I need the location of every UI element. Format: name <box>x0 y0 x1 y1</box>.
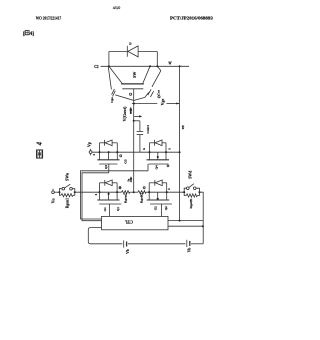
SW gate bar <box>122 88 143 90</box>
SW outer slant left lower <box>115 95 134 101</box>
resistor Rgoff2 <box>138 191 146 194</box>
svg-text:4]: 4] <box>30 31 35 37</box>
svg-text:4/10: 4/10 <box>113 6 120 10</box>
svg-text:Q2: Q2 <box>164 206 168 210</box>
svg-text:Rgon2: Rgon2 <box>123 193 127 203</box>
wire rail2 between resistors <box>130 191 138 193</box>
node dot c-inner-right <box>149 65 151 67</box>
transistor Q3 cell <box>97 140 119 169</box>
wire bottom right <box>191 243 203 245</box>
wire loop right vertical <box>156 52 158 67</box>
svg-text:9E: 9E <box>181 125 185 130</box>
Gout arrow horizontal <box>134 115 140 117</box>
wire loop top left <box>109 51 127 53</box>
SW outer slant right lower <box>145 92 149 97</box>
transistor Q1 mosfet <box>99 192 101 200</box>
transistor Q1 cell <box>97 180 122 217</box>
wire emitter vertical <box>179 66 181 220</box>
wire Q2 loop <box>148 183 150 192</box>
svg-text:Q4: Q4 <box>155 165 159 169</box>
wire box right upper <box>168 220 203 222</box>
node dots rail1 Q4 <box>148 151 150 153</box>
svg-text:G: G <box>143 148 146 150</box>
wire Q3 loop <box>99 143 101 152</box>
svg-text:Rgon1: Rgon1 <box>65 198 69 208</box>
node dot loop-right <box>156 65 158 67</box>
V(Gout) arrow vertical <box>130 110 132 114</box>
node dots rail1 Q3 <box>98 151 100 153</box>
svg-text:D: D <box>129 42 132 46</box>
node circle q4 <box>167 165 169 167</box>
svg-text:Vb: Vb <box>126 249 130 254</box>
transistor Q4 cell <box>143 140 181 169</box>
wire bottom loop left <box>88 228 122 244</box>
resistor Rgoff1 <box>184 192 199 197</box>
capacitor Cge bars <box>112 89 115 95</box>
wire loop left vertical <box>108 52 110 67</box>
node dot gate-rail2 <box>133 191 135 193</box>
diode Q2 <box>154 180 156 186</box>
svg-text:S: S <box>169 148 172 150</box>
diode Q3 <box>104 140 106 146</box>
wire Q3 gate drop <box>108 164 110 173</box>
svg-text:[: [ <box>23 31 25 37</box>
wire Q1 gate drop <box>108 204 110 216</box>
node G3 circle <box>120 155 122 157</box>
svg-text:CGD1: CGD1 <box>146 125 150 134</box>
svg-text:CTL: CTL <box>124 219 133 224</box>
svg-text:G1: G1 <box>103 207 107 211</box>
diode Q4 <box>154 140 156 146</box>
resistor Rgon1 <box>59 192 74 197</box>
wire box right lower <box>168 225 203 227</box>
svg-text:Vge: Vge <box>160 99 165 106</box>
svg-text:G2: G2 <box>154 206 158 210</box>
switch SWd <box>183 184 200 194</box>
terminal Vn <box>52 189 55 194</box>
node dot emitter-branch <box>179 65 181 67</box>
transistor Q3 mosfet <box>99 152 101 159</box>
battery Vb2 <box>187 240 190 247</box>
svg-text:SWd: SWd <box>189 170 193 179</box>
svg-text:V(Gout): V(Gout) <box>122 106 127 121</box>
svg-text:Cce: Cce <box>157 90 161 96</box>
wire rail2 segs <box>54 191 59 193</box>
FIG 4 rotated label <box>37 141 44 158</box>
wire Q4 gate drop <box>147 164 149 171</box>
node dots rail2 Q1 <box>98 191 100 193</box>
box CTL <box>102 216 169 229</box>
capacitor Cce bars <box>148 89 151 95</box>
wire main collector <box>101 65 190 67</box>
svg-text:Vn: Vn <box>51 198 55 204</box>
svg-text:S: S <box>95 193 98 195</box>
wire bus A <box>81 171 149 219</box>
svg-text:Rgoff2: Rgoff2 <box>140 193 144 203</box>
SW outer slant left upper <box>108 67 111 89</box>
capacitor CGD1 branch <box>134 120 140 122</box>
wire rail2 right corner <box>200 192 204 244</box>
svg-text:G3: G3 <box>123 159 127 164</box>
svg-text:SW: SW <box>132 72 137 78</box>
node dot gate branch <box>133 120 135 122</box>
switch SWu <box>58 184 75 193</box>
node dot emitter-box <box>179 220 181 222</box>
node G circle <box>130 93 132 95</box>
svg-text:Vp: Vp <box>86 141 91 147</box>
transistor Q4 mosfet <box>149 152 151 159</box>
[figure 4] bracket label <box>23 31 34 37</box>
wire rail1 <box>92 151 180 153</box>
wire Q4 loop <box>149 143 151 152</box>
gate lead wire down <box>133 89 135 192</box>
wire loop top right <box>138 51 157 53</box>
svg-text:4: 4 <box>37 141 44 146</box>
node dots rail2 Q2 <box>148 191 150 193</box>
wire bus B <box>82 173 109 221</box>
resistor Rgon2 <box>122 191 130 194</box>
diode D <box>127 46 138 57</box>
svg-text:Cge: Cge <box>110 97 114 103</box>
wire Q2 gate drop <box>160 204 162 216</box>
svg-text:WO 2017/221417: WO 2017/221417 <box>36 15 61 20</box>
SW inner slant right <box>143 66 150 83</box>
wire bottom mid <box>128 243 185 245</box>
wire rail2 to Q2 <box>146 191 184 193</box>
Ie current arrow <box>130 176 133 182</box>
transistor Q2 mosfet <box>148 192 150 200</box>
svg-text:PCT/JP2016/068893: PCT/JP2016/068893 <box>170 15 214 20</box>
node circle rgon2-left <box>119 187 121 189</box>
svg-text:SWu: SWu <box>66 172 70 181</box>
terminal Vp <box>89 149 92 155</box>
Vge measure arrow <box>132 96 180 105</box>
wire rail2 mid <box>75 191 122 193</box>
svg-text:W: W <box>168 61 172 65</box>
SW outer slant right upper <box>158 67 161 71</box>
node dot box lower <box>202 225 204 227</box>
svg-text:Vb: Vb <box>187 248 191 253</box>
svg-text:Rgoff1: Rgoff1 <box>189 198 193 208</box>
node dot c-left <box>108 65 110 67</box>
wire Q1 loop <box>99 183 101 192</box>
svg-text:S: S <box>168 188 171 190</box>
node circle rgoff2-right <box>143 187 145 189</box>
transistor Q2 cell <box>147 180 172 217</box>
diode Q1 <box>104 180 106 186</box>
svg-text:Q1: Q1 <box>116 207 120 211</box>
SW collector bar <box>121 83 144 85</box>
svg-text:S: S <box>93 153 96 155</box>
svg-text:Q3: Q3 <box>104 165 108 169</box>
svg-text:C2: C2 <box>94 65 99 69</box>
battery Vb1 <box>124 240 127 247</box>
SW inner slant left <box>109 66 122 83</box>
